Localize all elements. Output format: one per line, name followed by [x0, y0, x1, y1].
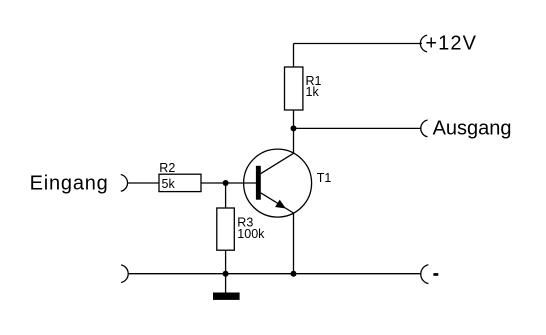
terminal +12V — [420, 35, 427, 52]
wire bottom rail — [128, 273, 421, 275]
terminal Eingang — [121, 175, 128, 192]
terminal Ausgang — [421, 120, 428, 137]
transistor T1 emitter line — [261, 193, 294, 213]
wire R3 top — [225, 183, 227, 208]
svg-text:+12V: +12V — [425, 33, 477, 55]
svg-text:5k: 5k — [162, 177, 176, 191]
resistor R2 — [159, 174, 201, 191]
junction node Ausgang — [291, 125, 297, 131]
svg-text:100k: 100k — [237, 227, 265, 241]
resistor R1 — [285, 67, 303, 110]
ground — [213, 293, 240, 300]
transistor T1 base bar — [256, 166, 261, 200]
svg-text:R2: R2 — [159, 161, 175, 175]
wire Ausgang — [294, 127, 422, 129]
svg-text:1k: 1k — [306, 85, 320, 99]
wire emitter down — [293, 213, 295, 274]
junction node ground — [223, 271, 229, 277]
wire R2 to base node — [201, 182, 256, 184]
transistor T1 body — [244, 149, 312, 217]
resistor R3 — [217, 208, 235, 250]
svg-text:T1: T1 — [317, 171, 332, 185]
transistor T1 collector line — [261, 153, 294, 173]
wire R1 bottom to collector — [293, 110, 295, 153]
terminal minus — [421, 265, 429, 284]
wire R3 bottom — [225, 250, 227, 274]
terminal bottom left — [121, 265, 128, 283]
wire to ground — [225, 274, 227, 293]
wire R1 top — [293, 44, 295, 68]
svg-text:Eingang: Eingang — [30, 173, 109, 195]
label minus — [433, 273, 438, 276]
junction node emitter-rail — [291, 271, 297, 277]
junction node base — [223, 180, 229, 186]
transistor T1 emitter arrow — [275, 200, 286, 209]
svg-text:Ausgang: Ausgang — [433, 117, 512, 139]
wire Eingang to R2 — [128, 182, 159, 184]
wire +12V top rail — [294, 43, 423, 45]
